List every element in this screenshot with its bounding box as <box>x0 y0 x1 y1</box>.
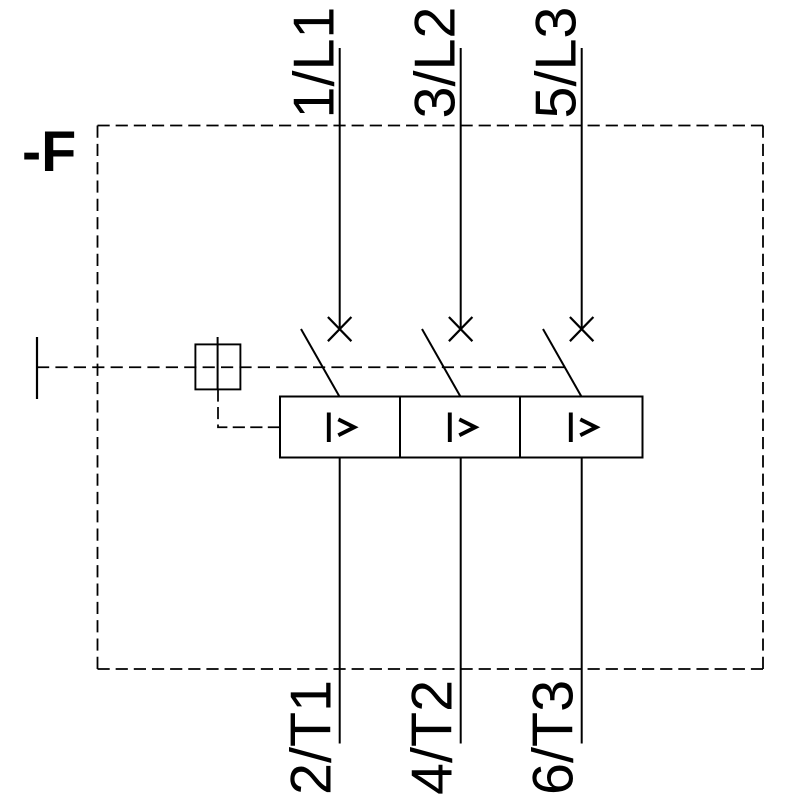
svg-text:1/L1: 1/L1 <box>283 7 347 119</box>
outline right edge <box>762 126 764 670</box>
svg-text:4/T2: 4/T2 <box>400 680 464 795</box>
svg-text:2/T1: 2/T1 <box>279 680 343 795</box>
contact cross pole1 <box>328 317 352 341</box>
svg-text:5/L3: 5/L3 <box>525 7 589 119</box>
switch blade pole2 <box>422 329 461 397</box>
contact cross pole3 <box>570 317 594 341</box>
wire pole3 top (5/L3) <box>581 48 583 329</box>
svg-text:-F: -F <box>22 120 76 184</box>
overcurrent symbol I> box3 <box>571 413 596 443</box>
outline top edge <box>98 125 764 127</box>
switch blade pole3 <box>543 329 582 397</box>
overcurrent symbol I> box1 <box>329 413 354 443</box>
wire pole3 bottom (6/T3) <box>581 458 583 744</box>
linkage square to release boxes (dashed) <box>218 389 280 427</box>
overcurrent symbol I> box2 <box>450 413 475 443</box>
trip mechanism square <box>195 344 240 389</box>
trip mechanism center line <box>217 337 219 389</box>
wire pole2 top (3/L2) <box>460 48 462 329</box>
wire pole1 top (1/L1) <box>339 48 341 329</box>
contact cross pole2 <box>449 317 473 341</box>
switch blade pole1 <box>301 329 340 397</box>
mechanism linkage (dashed) <box>37 366 565 368</box>
wire pole2 bottom (4/T2) <box>460 458 462 744</box>
outline left edge <box>97 126 99 670</box>
wire pole1 bottom (2/T1) <box>339 458 341 744</box>
svg-text:6/T3: 6/T3 <box>521 680 585 795</box>
manual operator T-bar <box>36 337 38 399</box>
outline bottom edge <box>98 668 764 670</box>
device outline (dashed enclosure) <box>98 126 764 670</box>
svg-text:3/L2: 3/L2 <box>404 7 468 119</box>
overload release box row <box>280 397 643 458</box>
